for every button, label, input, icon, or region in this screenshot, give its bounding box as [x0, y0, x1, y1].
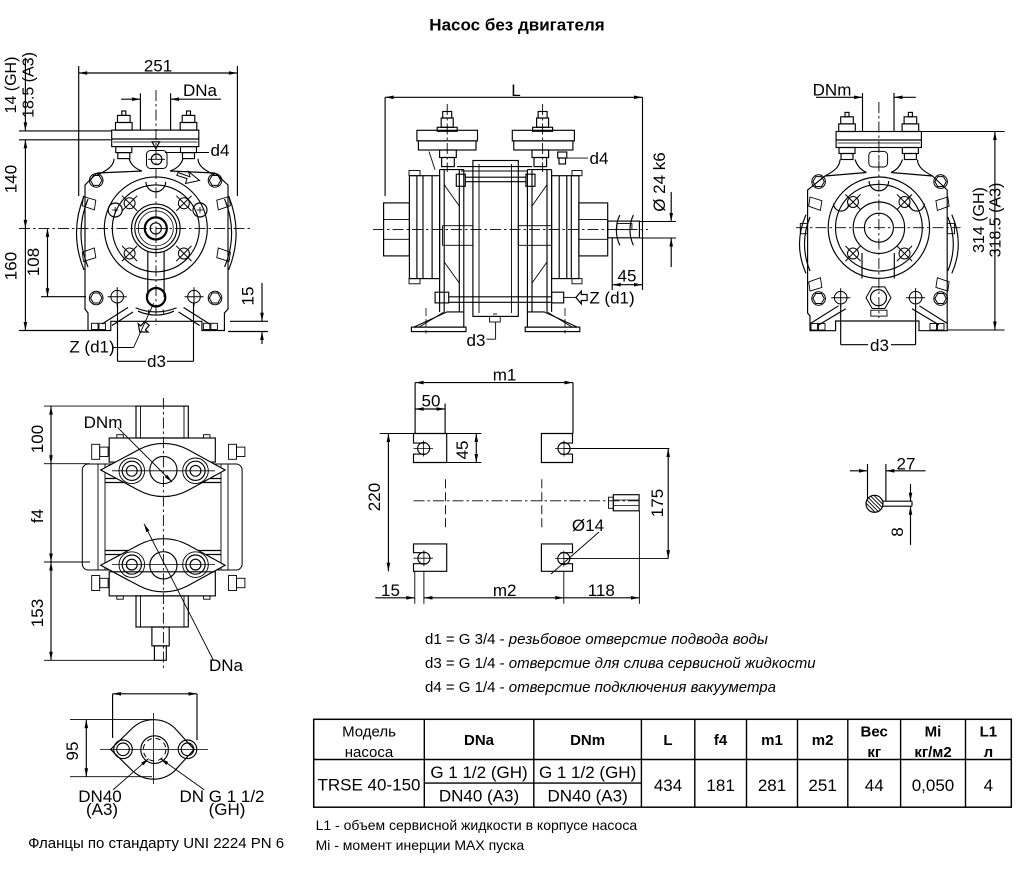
top view centerline	[162, 398, 164, 668]
svg-text:d4 = G 1/4 - отверстие подключ: d4 = G 1/4 - отверстие подключения вакуу…	[425, 679, 776, 696]
casing wings (rear)	[800, 197, 959, 291]
flange outline	[111, 720, 195, 779]
shaft stub (top view)	[152, 627, 169, 660]
dim 153	[28, 562, 156, 660]
svg-text:153: 153	[28, 599, 47, 627]
svg-text:TRSE 40-150: TRSE 40-150	[318, 776, 421, 795]
svg-text:Ø 24 k6: Ø 24 k6	[650, 152, 669, 212]
svg-text:Насос без двигателя: Насос без двигателя	[429, 16, 604, 35]
flange lower bolts (side)	[440, 150, 549, 167]
svg-text:DNa: DNa	[183, 81, 218, 100]
svg-text:27: 27	[897, 455, 916, 474]
feet (side)	[411, 308, 579, 334]
bolt at x=123.8	[116, 111, 133, 159]
neck shoulders (side)	[429, 152, 532, 172]
casing wings (front)	[77, 196, 237, 270]
svg-text:d4: d4	[211, 141, 230, 160]
bolt x=910.4	[902, 112, 919, 159]
label d3 (side)	[467, 322, 496, 350]
flange bolt holes	[114, 740, 197, 759]
port boss (rear)	[869, 149, 888, 170]
svg-text:Z (d1): Z (d1)	[589, 289, 634, 308]
svg-text:d4: d4	[590, 149, 609, 168]
base slots (rear)	[811, 324, 944, 331]
dim DNa	[121, 81, 221, 130]
svg-text:44: 44	[865, 776, 884, 795]
pads (footprint)	[414, 434, 447, 463]
main bearing circles (front)	[104, 177, 207, 280]
title: pump without motor	[429, 16, 604, 35]
dim 50	[415, 392, 445, 434]
port box top (top view)	[136, 406, 188, 438]
note d3	[425, 655, 816, 672]
dim 108	[24, 228, 86, 296]
svg-text:318.5 (A3): 318.5 (A3)	[988, 183, 1005, 258]
lower flange diamond (top view)	[101, 539, 225, 592]
d4 bolt and leader (side)	[558, 149, 609, 168]
weld triangle mark	[152, 142, 160, 149]
svg-text:L: L	[511, 81, 520, 100]
discharge flange (rear)	[836, 132, 921, 148]
corner hex nuts (rear)	[812, 175, 826, 189]
flange center bore	[141, 736, 169, 764]
impeller x-bolts (front)	[122, 196, 137, 211]
side view centerline	[373, 104, 648, 230]
svg-text:Z (d1): Z (d1)	[69, 338, 114, 357]
top bolt x=447.2	[437, 112, 457, 132]
rear view centerlines	[796, 102, 961, 318]
svg-text:95: 95	[63, 742, 82, 761]
dim d3 (front)	[118, 303, 194, 371]
dim DNm	[813, 81, 916, 132]
label Z (d1) front	[69, 303, 153, 356]
front view centerlines	[19, 90, 252, 325]
left disc flange (side)	[409, 171, 440, 284]
svg-text:L: L	[663, 732, 672, 749]
svg-text:50: 50	[422, 392, 441, 411]
top notch arc	[146, 182, 166, 192]
svg-text:4: 4	[984, 776, 993, 795]
svg-text:14 (GH): 14 (GH)	[3, 57, 20, 114]
mid blocks (side)	[443, 226, 552, 246]
svg-text:d3: d3	[147, 352, 166, 371]
svg-text:45: 45	[453, 441, 472, 460]
svg-text:d3 = G 1/4 - отверстие для сли: d3 = G 1/4 - отверстие для слива сервисн…	[425, 655, 816, 672]
flange detail crosshairs	[100, 713, 208, 784]
svg-text:DNm: DNm	[570, 732, 605, 749]
stack at 95,451.8	[92, 444, 108, 459]
corner hex nuts (front)	[89, 174, 103, 188]
note d4	[425, 679, 776, 696]
hub rings (front)	[132, 204, 181, 253]
top bolt x=542.6	[533, 112, 553, 132]
dim 15 (front view right)	[228, 283, 268, 344]
label DNm leader (top view)	[84, 413, 172, 482]
dim 160	[2, 228, 89, 330]
top dim (flange detail)	[113, 692, 197, 740]
leader DN G 1 1/2 (GH)	[160, 759, 264, 820]
drain V channels (rear)	[811, 306, 948, 325]
svg-text:f4: f4	[28, 509, 47, 523]
svg-text:насоса: насоса	[345, 744, 394, 761]
left pedestal column	[440, 170, 464, 312]
svg-text:G 1 1/2 (GH): G 1 1/2 (GH)	[430, 763, 527, 782]
svg-text:G 1 1/2 (GH): G 1 1/2 (GH)	[539, 763, 636, 782]
dim 100	[28, 406, 136, 464]
dim m1	[415, 366, 573, 434]
drain plug (side)	[490, 314, 501, 322]
svg-text:118: 118	[588, 581, 615, 600]
body (top view)	[82, 464, 242, 570]
svg-text:DN40 (A3): DN40 (A3)	[547, 787, 627, 806]
stack at 231.8,451.8	[229, 444, 245, 459]
svg-text:m2: m2	[493, 581, 517, 600]
svg-text:Фланцы по стандарту UNI 2224 P: Фланцы по стандарту UNI 2224 PN 6	[28, 835, 284, 852]
svg-text:(GH): (GH)	[209, 800, 246, 819]
note Mi	[316, 837, 525, 853]
svg-text:л: л	[984, 744, 994, 761]
shaft stub (footprint)	[609, 495, 640, 511]
svg-text:DNm: DNm	[84, 413, 123, 432]
dim 140	[2, 140, 28, 229]
scallops (rear)	[834, 204, 925, 212]
tie rod bottom (side)	[435, 292, 564, 303]
key slot lines	[883, 501, 913, 506]
svg-text:15: 15	[239, 287, 258, 306]
svg-text:100: 100	[28, 425, 47, 453]
svg-text:281: 281	[758, 776, 786, 795]
rotation arrow	[177, 172, 200, 184]
leader DN40 (A3)	[78, 759, 148, 820]
svg-text:108: 108	[24, 248, 43, 276]
label DNa leader (top view)	[144, 524, 244, 675]
upper flange diamond (top view)	[101, 443, 225, 496]
lower plate (top view)	[109, 572, 215, 599]
svg-text:Модель: Модель	[342, 724, 396, 741]
svg-text:8: 8	[888, 527, 907, 536]
top flanges (side)	[417, 130, 574, 150]
port box bottom (top view)	[136, 596, 188, 627]
svg-text:Mi - момент инерции MAX пуска: Mi - момент инерции MAX пуска	[316, 837, 525, 853]
right pedestal column	[527, 170, 551, 312]
bolt at x=188.5	[180, 111, 197, 159]
hex plug (rear)	[866, 287, 891, 316]
svg-text:DNa: DNa	[209, 656, 244, 675]
svg-text:18.5 (A3): 18.5 (A3)	[21, 52, 38, 118]
svg-text:(A3): (A3)	[86, 800, 118, 819]
svg-text:m2: m2	[812, 732, 834, 749]
data table	[314, 719, 1012, 807]
svg-text:DNa: DNa	[464, 732, 495, 749]
svg-text:m1: m1	[493, 366, 517, 385]
svg-text:m1: m1	[761, 732, 783, 749]
svg-text:DN40 (A3): DN40 (A3)	[439, 787, 519, 806]
svg-text:181: 181	[706, 776, 734, 795]
casing outline (front)	[85, 171, 228, 331]
svg-text:45: 45	[618, 267, 637, 286]
dim L	[385, 81, 642, 290]
neck curves (front)	[97, 159, 215, 175]
svg-text:L1: L1	[980, 724, 998, 741]
stack at 231.8,583	[229, 576, 245, 591]
tie rods (top view)	[105, 479, 221, 555]
stack at 95,583	[92, 576, 108, 591]
dim 8	[888, 484, 912, 545]
svg-text:d3: d3	[870, 336, 889, 355]
dim f4	[28, 464, 90, 562]
impeller x-bolts (rear)	[845, 194, 860, 209]
bottom arcs under plug (front)	[136, 308, 177, 315]
dim 95	[63, 720, 152, 777]
shaft end (side)	[608, 215, 640, 245]
neck curves (rear)	[825, 160, 933, 177]
svg-text:кг/м2: кг/м2	[914, 744, 951, 761]
svg-text:кг: кг	[867, 744, 881, 761]
top notch (rear)	[869, 181, 889, 191]
svg-text:d3: d3	[467, 331, 486, 350]
note L1	[316, 817, 638, 833]
svg-text:314 (GH): 314 (GH)	[971, 187, 988, 253]
table data text	[318, 763, 994, 806]
top plate (top view)	[109, 435, 215, 462]
right disc flange (side)	[552, 171, 582, 284]
note flanges standard	[28, 835, 284, 852]
dim 175	[564, 449, 670, 559]
svg-text:220: 220	[365, 483, 384, 511]
leader d4 (front)	[165, 141, 229, 160]
svg-text:L1 - объем сервисной жидкости: L1 - объем сервисной жидкости в корпусе …	[316, 817, 638, 833]
casing outline (rear)	[808, 173, 948, 331]
tie rod top (side)	[456, 174, 535, 186]
label Z (d1) side	[564, 289, 635, 308]
base feet slots (front)	[92, 323, 218, 329]
footprint centerlines	[414, 479, 640, 527]
label Ø14	[551, 516, 604, 574]
svg-text:0,050: 0,050	[912, 776, 955, 795]
dim Ø24 k6	[639, 152, 676, 267]
svg-text:f4: f4	[714, 732, 728, 749]
volute lines (rear)	[862, 253, 894, 279]
dim 251	[79, 57, 238, 197]
hub circles (rear)	[853, 202, 904, 253]
svg-text:175: 175	[648, 489, 667, 517]
side small circles (front)	[108, 203, 207, 217]
central drum (side)	[473, 161, 518, 317]
svg-text:Mi: Mi	[925, 724, 942, 741]
dim 220	[365, 434, 415, 572]
table header text	[342, 724, 997, 762]
right end cap (side)	[579, 203, 608, 256]
volute lines below hub	[148, 252, 164, 297]
side stubs (rear)	[800, 223, 954, 233]
svg-text:15: 15	[381, 581, 400, 600]
note d1	[425, 631, 768, 648]
dim 14 (GH) / 18.5 (A3) left chain	[3, 52, 112, 140]
bottom fitting row (front)	[108, 287, 127, 306]
svg-text:434: 434	[654, 776, 682, 795]
main circles (rear)	[828, 177, 929, 278]
svg-text:140: 140	[2, 165, 21, 193]
svg-text:251: 251	[808, 776, 836, 795]
bolt x=847	[839, 112, 856, 159]
suction flange (front)	[112, 130, 199, 147]
dim 314 (GH) / 318.5 (A3)	[921, 132, 1004, 331]
dim 45 (side)	[612, 238, 642, 290]
dim 45 (footprint)	[447, 434, 482, 463]
dim d3 (rear)	[841, 305, 916, 355]
bottom fittings (rear)	[831, 288, 850, 307]
port d4 boss (front)	[147, 151, 168, 169]
svg-text:251: 251	[144, 57, 172, 76]
dim 27	[850, 455, 926, 502]
svg-text:Вес: Вес	[861, 724, 888, 741]
svg-text:DNm: DNm	[813, 81, 852, 100]
drain V channels (front)	[102, 308, 210, 326]
shaft section hatched circle	[866, 495, 883, 512]
svg-text:d1 = G 3/4 - резьбовое отверст: d1 = G 3/4 - резьбовое отверстие подвода…	[425, 631, 768, 648]
bottom dim chain 15 / m2 / 118	[375, 511, 639, 604]
svg-text:160: 160	[2, 252, 21, 280]
left end cap (side)	[384, 203, 410, 256]
svg-text:Ø14: Ø14	[572, 516, 604, 535]
